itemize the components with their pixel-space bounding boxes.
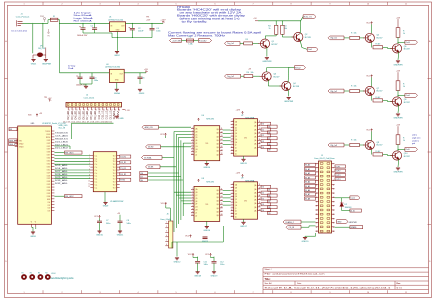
svg-text:TX0D/LIO0: TX0D/LIO0 (55, 133, 69, 135)
IC U5 right boxed labels (120, 155, 131, 158)
svg-text:BC327: BC327 (274, 76, 280, 78)
svg-text:angle zero: angle zero (412, 137, 420, 139)
svg-text:BC128: BC128 (305, 37, 311, 39)
wire pullup to collector rc2 (397, 90, 399, 97)
global label Rly_In3 (328, 143, 344, 147)
wire U1 ground rail (112, 37, 152, 39)
svg-text:QB: QB (235, 188, 237, 190)
svg-text:140n: 140n (204, 264, 208, 266)
svg-text:R 4k7: R 4k7 (376, 44, 381, 46)
svg-text:GND9: GND9 (103, 206, 108, 208)
svg-text:1k: 1k (403, 33, 405, 35)
svg-text:VCC: VCC (366, 130, 371, 132)
svg-text:+12V: +12V (160, 20, 166, 22)
wire R5 to Q1 base (253, 42, 259, 44)
capacitor C6 at U2 out (138, 77, 143, 79)
global label Out1 (307, 48, 318, 52)
svg-text:GND10: GND10 (96, 235, 104, 237)
svg-text:SEN_R: SEN_R (9, 144, 16, 146)
ground C7 (97, 231, 101, 233)
wire row2 caps gnd rail (80, 83, 92, 85)
svg-text:IO16: IO16 (47, 158, 51, 160)
+12V flag at U1 output (162, 22, 165, 24)
svg-text:O7: O7 (268, 201, 270, 203)
wires U8 to U9 (223, 190, 231, 192)
+5V testpoint left (49, 100, 52, 102)
svg-text:GNDA: GNDA (114, 92, 120, 95)
svg-text:10k: 10k (251, 72, 254, 74)
MCU U3 top pin label box (9, 128, 17, 131)
svg-text:10: 10 (191, 154, 193, 156)
svg-text:R 4k7: R 4k7 (376, 151, 381, 153)
svg-text:GND15: GND15 (240, 163, 248, 165)
svg-text:IO21: IO21 (47, 146, 51, 148)
svg-text:1000uF 25V: 1000uF 25V (77, 35, 88, 37)
wires U6 to U7 (223, 129, 231, 131)
svg-text:Out4: Out4 (406, 94, 410, 97)
connector J6 pins (165, 223, 168, 246)
svg-text:QH: QH (195, 149, 197, 151)
svg-text:Id: 1/1: Id: 1/1 (397, 287, 403, 289)
connector J6 body (169, 221, 173, 248)
svg-text:O9: O9 (268, 150, 270, 152)
svg-text:1.5A: 1.5A (188, 43, 193, 46)
capacitor C2 100n input (92, 28, 97, 30)
svg-text:GND3: GND3 (139, 93, 145, 95)
ground bottom mid (175, 258, 179, 260)
svg-text:Out5: Out5 (406, 148, 410, 151)
wire to U1 gnd symbol (117, 38, 119, 52)
svg-text:+12V: +12V (236, 110, 241, 112)
wire R4 to Q2 base (282, 36, 293, 38)
svg-text:34: 34 (333, 231, 335, 233)
svg-text:RXD0: RXD0 (46, 137, 50, 139)
svg-text:100n: 100n (156, 30, 160, 32)
+5V flag after U2 (145, 71, 148, 73)
svg-text:D4_LED: D4_LED (74, 111, 78, 120)
mounting hole H3 (38, 274, 44, 280)
wire R6 to Q3 (253, 75, 260, 77)
svg-text:Rly_In1: Rly_In1 (331, 38, 337, 40)
svg-text:O4: O4 (262, 147, 264, 149)
svg-text:FLASH_C: FLASH_C (286, 221, 295, 224)
svg-text:18: 18 (333, 197, 335, 199)
wire J5 gnd (315, 233, 317, 236)
svg-text:SCL_IN: SCL_IN (59, 127, 66, 129)
svg-text:OUT3: OUT3 (336, 175, 341, 177)
connector J5 body (319, 161, 332, 233)
svg-text:QF: QF (195, 204, 197, 206)
connector J5 right pins (332, 163, 335, 231)
svg-text:J5: J5 (321, 155, 323, 157)
svg-text:WS_LED1: WS_LED1 (65, 152, 73, 154)
svg-text:QF: QF (195, 143, 197, 145)
ground Q1 (265, 58, 269, 60)
svg-text:5: 5 (175, 4, 176, 6)
ground Q4 (287, 98, 291, 100)
connector J5 left boxed labels (305, 163, 316, 166)
svg-text:SEN_P: SEN_P (9, 140, 16, 142)
ground U8 (206, 221, 208, 226)
connector J5 right boxed labels (335, 165, 345, 168)
wire input caps ground rail (83, 32, 95, 34)
svg-text:J4: J4 (86, 95, 88, 97)
svg-text:10k: 10k (354, 85, 357, 87)
svg-text:Fused12: Fused12 (199, 40, 206, 42)
svg-text:VCC: VCC (160, 134, 165, 136)
svg-text:O8: O8 (268, 207, 270, 209)
svg-text:GND: GND (112, 111, 116, 120)
svg-text:IO14: IO14 (47, 163, 51, 165)
svg-text:Trig_In1: Trig_In1 (227, 42, 234, 45)
svg-text:QE: QE (195, 201, 197, 203)
svg-text:C1+: C1+ (95, 179, 98, 181)
wire to fuse F2 (182, 40, 187, 42)
VCC C11 (192, 253, 194, 256)
svg-text:O2: O2 (262, 135, 264, 137)
VCC above transistor rc2 (371, 75, 373, 78)
svg-text:Rev:: Rev: (397, 283, 401, 285)
svg-text:Conn_02x17_Odd_Even: Conn_02x17_Odd_Even (314, 158, 335, 160)
svg-text:2M_PW: 2M_PW (38, 48, 45, 50)
power flag PWR (43, 18, 45, 22)
wire to NPN base rc3 (383, 153, 388, 155)
svg-text:R5: R5 (246, 39, 248, 41)
svg-text:O3: O3 (262, 204, 264, 206)
svg-text:RTS0: RTS0 (120, 180, 125, 182)
svg-text:GNDPWR: GNDPWR (262, 61, 272, 63)
svg-text:GND18: GND18 (194, 275, 202, 277)
svg-text:D32_ADL: D32_ADL (55, 182, 69, 185)
svg-text:11: 11 (405, 4, 407, 6)
svg-text:GND17: GND17 (240, 226, 248, 228)
svg-text:IO35: IO35 (47, 187, 51, 189)
wire Q4 collector to gnd (287, 90, 290, 97)
svg-text:Conn_01x14: Conn_01x14 (84, 98, 95, 100)
svg-text:4: 4 (137, 292, 138, 294)
svg-text:R3: R3 (268, 26, 270, 28)
svg-text:(when can missing most at heat: (when can missing most at heat 1+) (180, 17, 240, 20)
wire to NPN base rc1 (383, 46, 388, 48)
svg-text:H2: H2 (30, 273, 32, 275)
svg-text:GND16: GND16 (203, 230, 211, 232)
svg-text:+5V: +5V (144, 69, 148, 71)
svg-text:22: 22 (333, 206, 335, 208)
boxed label bottom right J5 (350, 226, 363, 229)
svg-text:DC in 5.5/2.1mm: DC in 5.5/2.1mm (12, 31, 28, 33)
svg-text:4: 4 (166, 235, 167, 237)
svg-text:VCC: VCC (185, 236, 190, 238)
svg-text:2: 2 (61, 292, 62, 294)
svg-text:U9: U9 (241, 178, 243, 180)
wire emitter down to resistor2 rc3 (371, 150, 373, 155)
wire bus to IC C (174, 191, 191, 193)
svg-text:CLK_AD0: CLK_AD0 (55, 135, 69, 138)
svg-text:C1+: C1+ (95, 176, 98, 178)
transistor Q7 PNP (363, 86, 374, 95)
global label fused out (198, 39, 211, 43)
svg-text:540n: 540n (127, 223, 131, 225)
svg-text:QF: QF (235, 136, 237, 138)
svg-text:10: 10 (191, 214, 193, 216)
svg-text:6: 6 (166, 244, 167, 246)
svg-text:540n: 540n (106, 223, 110, 225)
svg-text:TX_R1: TX_R1 (120, 156, 126, 158)
VCC mid (165, 133, 167, 136)
ground J5 (303, 238, 307, 240)
global label InLED (146, 145, 161, 149)
svg-text:D23_LED0: D23_LED0 (55, 141, 69, 143)
svg-text:L4796D2T-3C330: L4796D2T-3C330 (105, 67, 120, 69)
wire bus verticals (173, 132, 175, 233)
svg-text:D5_LED: D5_LED (78, 111, 82, 120)
svg-text:GND11: GND11 (117, 235, 124, 237)
svg-text:Q3: Q3 (274, 74, 277, 76)
svg-text:C11: C11 (204, 261, 207, 263)
wire emitter down to resistor2 rc1 (371, 43, 373, 48)
svg-text:D8_LED: D8_LED (89, 111, 93, 120)
svg-text:IO2: IO2 (48, 205, 51, 207)
svg-text:IN_A3: IN_A3 (305, 176, 310, 179)
svg-text:QB: QB (195, 192, 197, 194)
VCC U8 (198, 179, 200, 182)
svg-text:D6_LED: D6_LED (81, 111, 85, 120)
svg-text:HT9490: HT9490 (177, 7, 191, 9)
svg-text:10: 10 (367, 292, 369, 294)
svg-text:F1: F1 (53, 16, 55, 18)
wire fuse to regulator U1 (60, 22, 110, 24)
wire resistor to transistor rc3 (359, 144, 364, 146)
svg-text:U7: U7 (241, 115, 243, 117)
ground U9 (243, 219, 245, 222)
svg-text:D3_LED: D3_LED (70, 111, 74, 120)
svg-text:O0: O0 (262, 187, 264, 189)
svg-text:11: 11 (405, 292, 407, 294)
svg-text:R6: R6 (247, 72, 249, 74)
svg-text:QL: QL (235, 153, 237, 155)
wire M1 top rail (258, 20, 301, 22)
svg-text:8: 8 (290, 4, 291, 6)
svg-text:C1+: C1+ (95, 187, 98, 189)
wire resistor to transistor rc1 (359, 37, 364, 39)
svg-text:Trig_In2: Trig_In2 (227, 75, 234, 78)
connector J4 body (66, 102, 122, 107)
svg-text:QE: QE (235, 133, 237, 135)
transistor Q1 BC337 (258, 39, 269, 48)
ground U5 (103, 202, 107, 204)
svg-text:IO0: IO0 (48, 208, 51, 210)
svg-text:IO25: IO25 (47, 178, 51, 180)
wire emitter down to resistor2 rc2 (371, 96, 373, 101)
svg-text:LOGO: LOGO (51, 273, 56, 275)
wire M1 rail to output label (301, 17, 304, 21)
svg-text:4: 4 (137, 4, 138, 6)
wire MCU gnd (32, 227, 34, 232)
svg-text:D9_LED: D9_LED (93, 111, 97, 120)
svg-text:D2_LED: D2_LED (66, 111, 70, 120)
svg-text:QE: QE (235, 196, 237, 198)
global label Trig_In2 (225, 74, 241, 78)
ground J4 (115, 116, 119, 118)
svg-text:to fly totally.: to fly totally. (182, 20, 209, 23)
svg-text:Conn_PwrJack: Conn_PwrJack (16, 17, 29, 19)
wire emitter to gnd rc3 (397, 159, 400, 167)
svg-text:595: 595 (205, 143, 208, 145)
global label Out4 (398, 94, 405, 96)
svg-text:O5: O5 (268, 190, 270, 192)
small boxed labels mid left (140, 171, 148, 174)
svg-text:C7: C7 (106, 220, 108, 222)
svg-text:O6: O6 (268, 195, 270, 197)
IC U8 74HC595 body (194, 186, 220, 221)
ground U2 (115, 89, 119, 91)
svg-text:QK: QK (235, 151, 237, 153)
svg-text:C1+: C1+ (95, 167, 98, 169)
svg-text:32: 32 (333, 227, 335, 229)
svg-text:gnd: gnd (412, 143, 415, 145)
svg-text:1: 1 (166, 222, 167, 224)
svg-text:Case: Case (351, 198, 355, 200)
svg-text:BC337: BC337 (404, 49, 410, 51)
svg-text:+5V: +5V (48, 98, 52, 100)
svg-text:BC337: BC337 (404, 156, 410, 158)
svg-text:9: 9 (329, 4, 330, 6)
MCU U3 left label SENSOR boxes (9, 139, 17, 142)
fuse F2 (186, 39, 193, 42)
boxed label below diode (350, 209, 362, 212)
svg-text:Q1: Q1 (272, 41, 275, 43)
svg-text:3: 3 (99, 292, 100, 294)
svg-text:Echo2: Echo2 (295, 67, 300, 69)
global label Echo_Out1 (303, 15, 316, 19)
svg-text:U8: U8 (202, 178, 204, 180)
wire to base resistor rc2 (344, 90, 349, 92)
svg-text:Boards 'HC4C20' will end diyla: Boards 'HC4C20' will end diylay (177, 9, 243, 12)
svg-text:IO32: IO32 (47, 184, 51, 186)
svg-text:Rly_In2: Rly_In2 (331, 91, 337, 93)
svg-text:GND14: GND14 (203, 167, 211, 169)
svg-text:U5 MAX232DW: U5 MAX232DW (110, 200, 124, 203)
resistor coupling rc1 (373, 46, 383, 49)
IC U9 output labels fan (261, 185, 271, 188)
wire junction down to jumper right (42, 23, 44, 47)
transistor Q2 BC128 (292, 32, 303, 41)
svg-text:GNDPWR: GNDPWR (349, 222, 358, 224)
svg-text:QJ: QJ (195, 155, 197, 157)
connector J4 pins (68, 107, 118, 110)
svg-text:10k: 10k (354, 139, 357, 141)
svg-text:H3: H3 (38, 273, 40, 275)
ground U7 (243, 156, 245, 159)
svg-text:QF: QF (235, 199, 237, 201)
svg-text:InLED: InLED (148, 147, 154, 149)
svg-text:D21_LED2: D21_LED2 (55, 147, 69, 149)
svg-text:OUT2: OUT2 (336, 171, 341, 173)
svg-text:+12V_SW: +12V_SW (172, 40, 181, 42)
svg-text:+12V: +12V (236, 173, 241, 175)
svg-text:3: 3 (99, 4, 100, 6)
svg-text:Q6: Q6 (404, 46, 407, 48)
ground U6 (206, 161, 208, 164)
capacitor C4 100n output (150, 28, 155, 30)
svg-text:GND: GND (119, 118, 124, 120)
svg-text:VCC: VCC (366, 76, 371, 78)
svg-text:CS_IN: CS_IN (289, 227, 295, 229)
ground C8 (118, 231, 122, 233)
title block frame (263, 268, 429, 294)
svg-text:anode to: anode to (412, 139, 419, 142)
svg-text:IO36: IO36 (47, 196, 51, 198)
svg-text:1k: 1k (403, 86, 405, 88)
svg-text:10k: 10k (284, 28, 287, 30)
svg-text:Out3: Out3 (406, 41, 410, 44)
svg-text:WS_LED2: WS_LED2 (65, 196, 73, 198)
svg-text:Q9: Q9 (377, 142, 380, 144)
svg-text:IN_A4: IN_A4 (305, 181, 310, 184)
svg-text:GND2: GND2 (114, 55, 120, 57)
svg-text:10: 10 (88, 180, 90, 182)
svg-text:+5: +5 (31, 221, 33, 223)
ground rc3 (396, 168, 400, 170)
wire R3 to Q1 collector (265, 35, 276, 37)
svg-text:100n: 100n (220, 264, 224, 266)
svg-text:TP5: TP5 (44, 97, 47, 99)
ground below JP1 right (44, 60, 48, 62)
svg-text:2: 2 (61, 4, 62, 6)
ground U1 (115, 52, 119, 54)
wire to NPN base rc2 (383, 99, 388, 101)
svg-text:Q8: Q8 (404, 99, 407, 101)
svg-text:1k: 1k (403, 140, 405, 142)
svg-text:IO33: IO33 (47, 181, 51, 183)
svg-text:File: arduinoantenne37623.kica: File: arduinoantenne37623.kicad_sch (265, 273, 325, 276)
ground rc2 (396, 114, 400, 116)
svg-text:SPARE: SPARE (351, 226, 358, 229)
svg-text:100n: 100n (94, 80, 98, 82)
svg-text:QK: QK (235, 214, 237, 216)
global label InLEDAL (142, 156, 163, 160)
global label Trig_In1 (225, 42, 241, 46)
svg-text:1N4148: 1N4148 (345, 207, 352, 209)
svg-text:C1+: C1+ (95, 161, 98, 163)
svg-text:Date:: Date: (297, 282, 302, 285)
svg-text:C1+: C1+ (95, 184, 98, 186)
global label MOSI bottom left (283, 220, 301, 224)
svg-text:IO39: IO39 (47, 193, 51, 195)
MCU boxed label WS LED (65, 151, 83, 154)
wire pullup to collector rc1 (397, 37, 399, 44)
svg-text:IO12: IO12 (47, 169, 51, 171)
svg-text:Q5: Q5 (377, 35, 380, 37)
svg-text:U6: U6 (202, 115, 204, 117)
svg-text:on any baudrate unit with 12V: on any baudrate unit with 12V 2A. (180, 12, 244, 15)
svg-text:9: 9 (329, 292, 330, 294)
svg-text:GNDPWR: GNDPWR (42, 64, 52, 66)
global label Case (335, 197, 350, 199)
diode D2 1N4148 (341, 198, 343, 202)
svg-text:Sheet: /: Sheet: / (265, 268, 272, 271)
wire Q1 emitter to gnd (266, 47, 268, 56)
svg-text:Logic 50mA: Logic 50mA (74, 17, 94, 20)
ground below JP1 left (31, 60, 35, 62)
svg-text:GND8: GND8 (30, 236, 36, 238)
svg-text:8: 8 (290, 292, 291, 294)
wire Q3 collector up right (266, 68, 268, 72)
svg-text:U4: U4 (106, 64, 108, 66)
svg-text:VCC: VCC (188, 254, 193, 256)
svg-text:O5: O5 (268, 127, 270, 129)
ground MCU (31, 232, 35, 234)
